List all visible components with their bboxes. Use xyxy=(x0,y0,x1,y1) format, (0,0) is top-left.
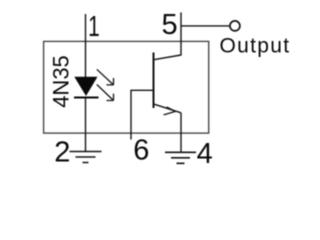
IC body rectangle U1 xyxy=(44,41,209,133)
ground GND at pin 4 xyxy=(165,152,196,163)
svg-text:2: 2 xyxy=(54,137,70,169)
svg-text:5: 5 xyxy=(162,9,178,41)
ground GND at pin 2 xyxy=(70,152,102,163)
wire emitter / pin 4 vertical xyxy=(180,113,182,153)
transistor Q1 base bar xyxy=(153,53,155,109)
output terminal circle xyxy=(230,21,240,31)
light arrow 1 xyxy=(97,69,114,85)
svg-text:6: 6 xyxy=(133,135,149,167)
wire LED cathode to ground xyxy=(85,97,87,152)
svg-text:1: 1 xyxy=(88,11,100,43)
transistor Q1 emitter arrowhead xyxy=(164,107,176,115)
wire base to pin 6 xyxy=(131,90,154,139)
LED D1 cathode bar xyxy=(74,97,99,99)
svg-text:4: 4 xyxy=(197,138,213,170)
light arrow 2 xyxy=(97,85,114,101)
LED D1 triangle xyxy=(74,77,97,96)
wire pin 5 collector vertical xyxy=(180,12,182,55)
wire pin 1 anode xyxy=(85,14,87,78)
svg-text:Output: Output xyxy=(220,35,291,58)
transistor Q1 emitter diagonal xyxy=(155,104,182,113)
svg-text:4N35: 4N35 xyxy=(49,55,74,108)
wire output horizontal xyxy=(181,25,229,27)
transistor Q1 collector diagonal xyxy=(155,55,182,60)
